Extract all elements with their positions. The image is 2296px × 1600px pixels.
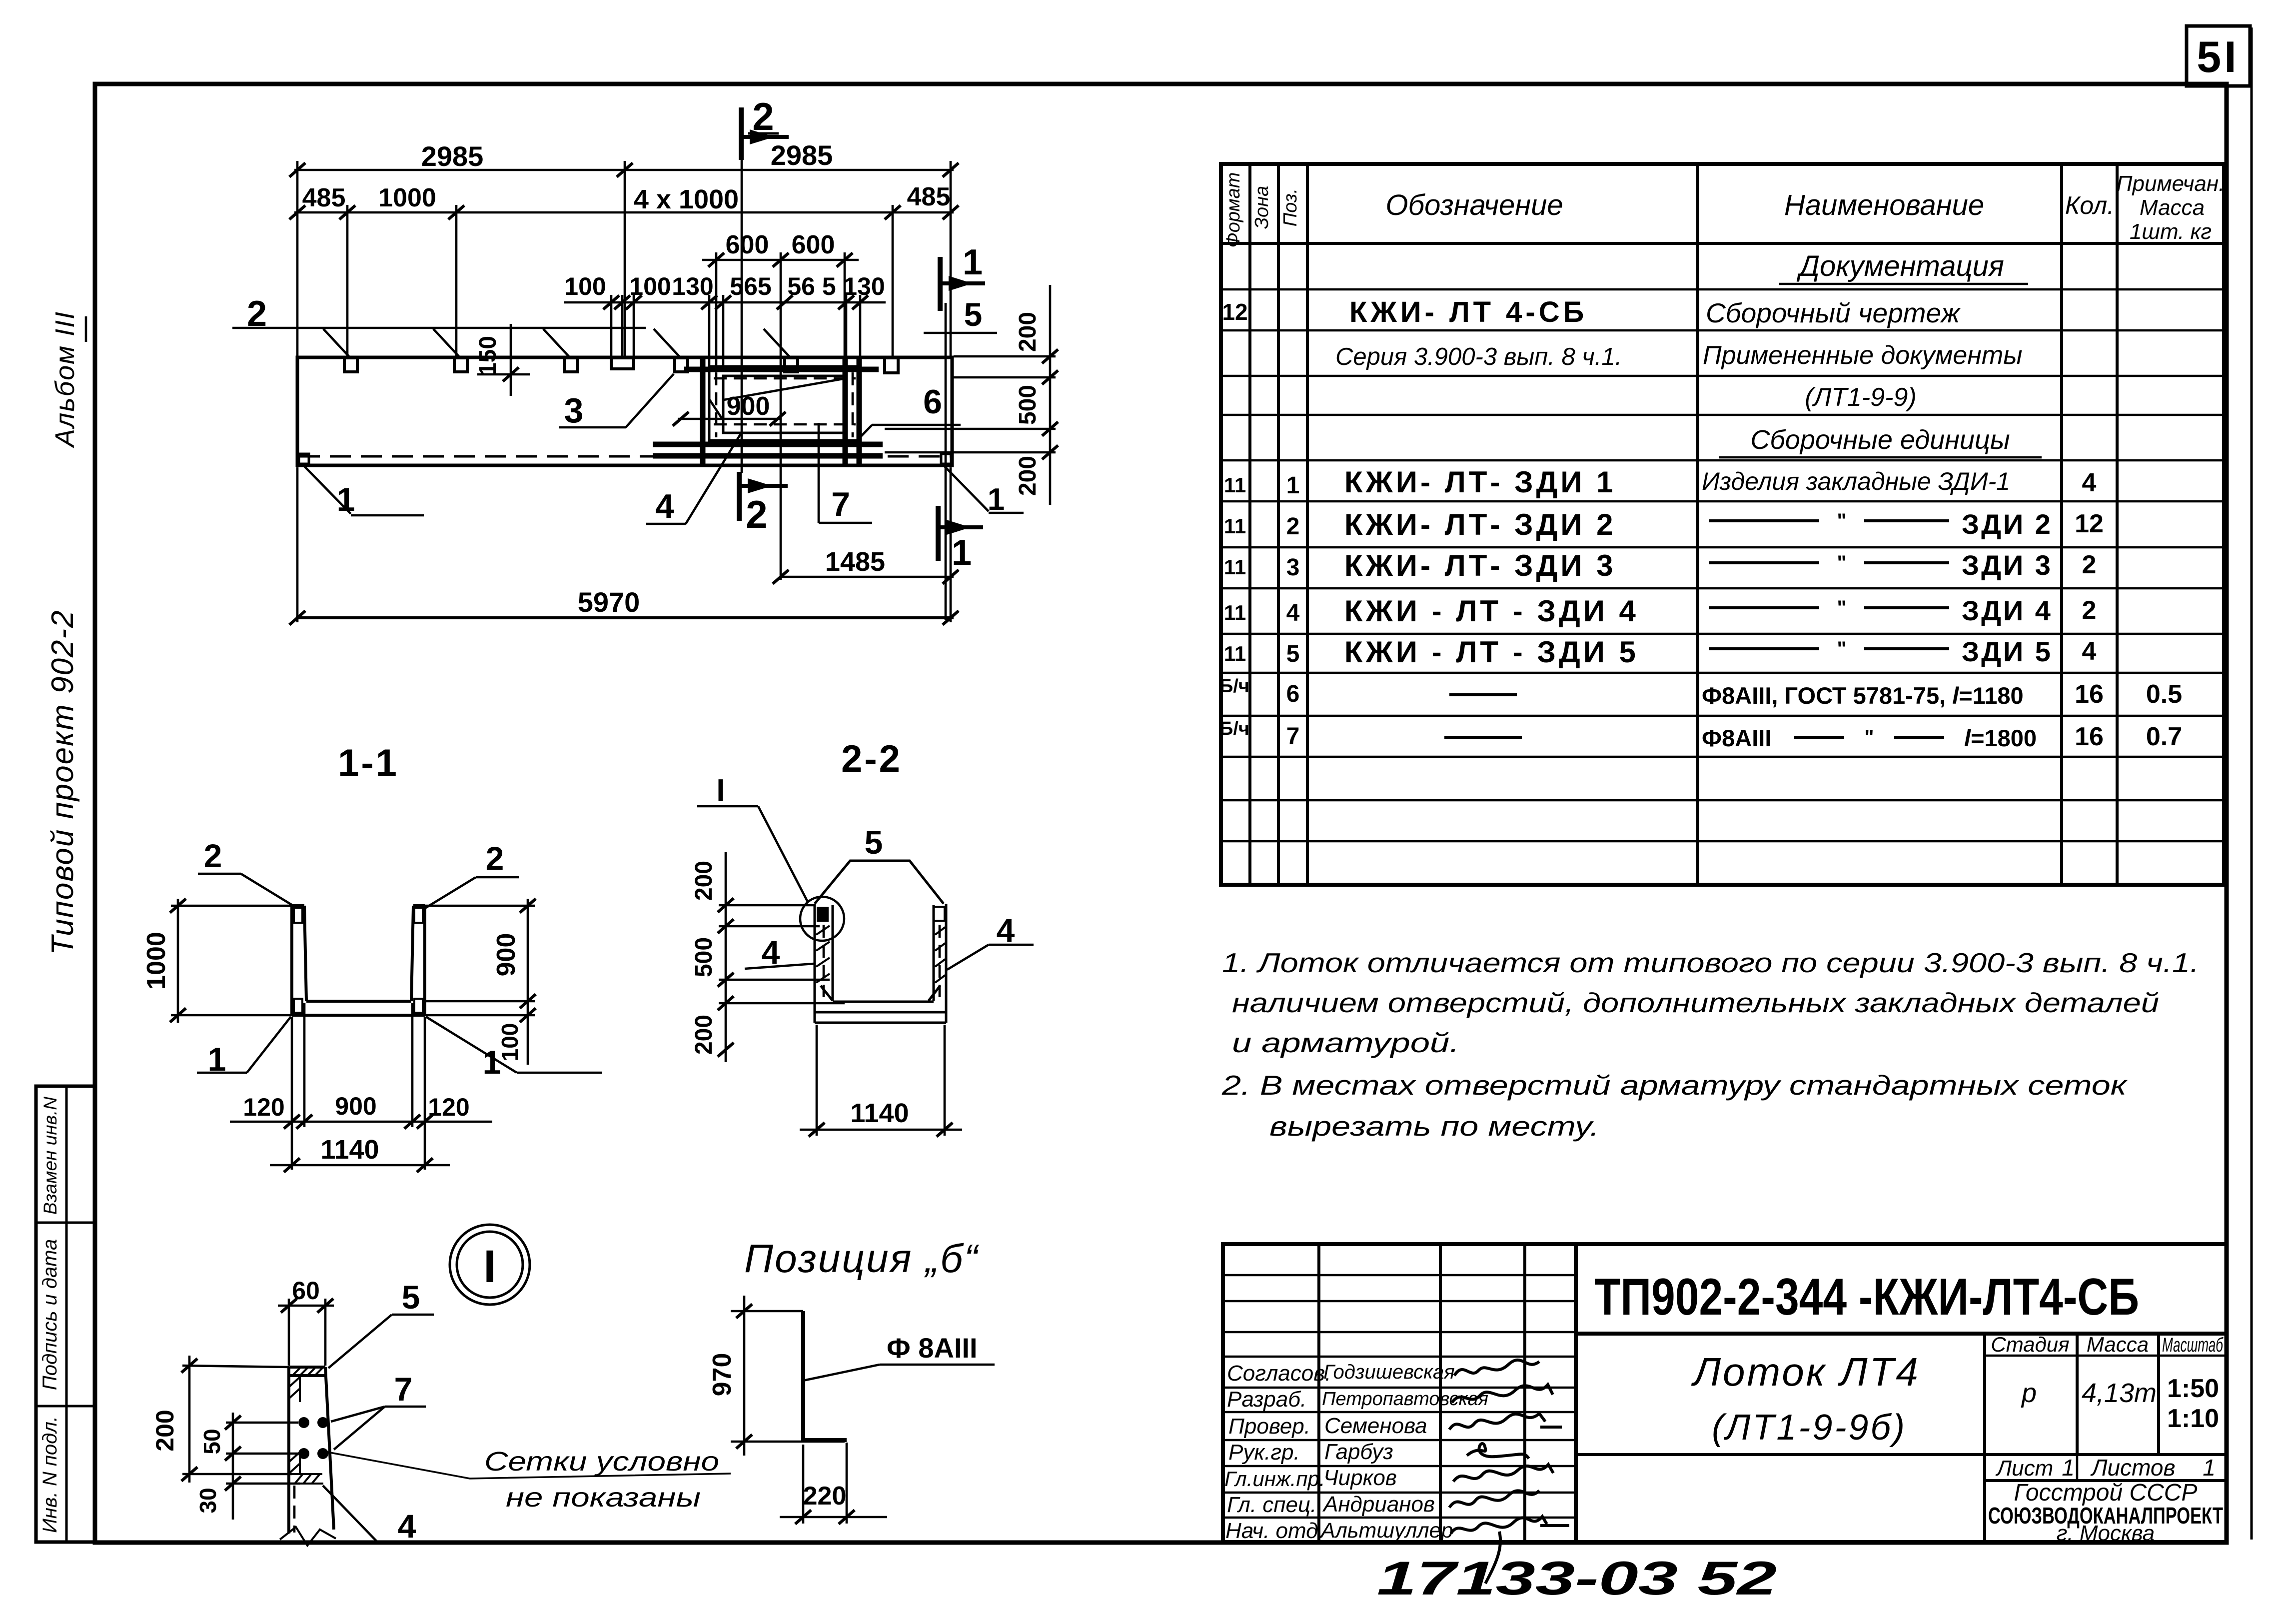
svg-text:1: 1 xyxy=(337,481,355,518)
svg-text:Сборочный чертеж: Сборочный чертеж xyxy=(1706,297,1961,328)
svg-text:": " xyxy=(1837,597,1847,619)
svg-text:2: 2 xyxy=(746,492,767,536)
svg-text:2: 2 xyxy=(752,94,774,138)
svg-text:0.5: 0.5 xyxy=(2146,680,2182,709)
svg-text:Масштаб: Масштаб xyxy=(2162,1334,2224,1356)
svg-text:не показаны: не показаны xyxy=(506,1483,701,1513)
svg-text:Ф 8АIII: Ф 8АIII xyxy=(887,1332,978,1364)
svg-text:Сетки условно: Сетки условно xyxy=(484,1447,719,1477)
svg-text:0.7: 0.7 xyxy=(2146,722,2182,751)
svg-text:": " xyxy=(1837,638,1847,660)
svg-text:КЖИ - ЛТ - ЗДИ 5: КЖИ - ЛТ - ЗДИ 5 xyxy=(1344,635,1639,669)
svg-text:Альтшуллер: Альтшуллер xyxy=(1319,1519,1453,1543)
svg-text:200: 200 xyxy=(1015,312,1041,352)
svg-text:Гарбуз: Гарбуз xyxy=(1324,1440,1393,1464)
svg-text:наличием отверстий, дополнит: наличием отверстий, дополнительных закла… xyxy=(1232,987,2159,1018)
svg-text:Типовой проект 902-2: Типовой проект 902-2 xyxy=(45,609,80,955)
svg-text:970: 970 xyxy=(708,1353,737,1397)
svg-text:1-1: 1-1 xyxy=(338,742,399,784)
svg-text:100: 100 xyxy=(629,272,671,300)
svg-text:4: 4 xyxy=(762,934,780,971)
svg-text:Гл. спец.: Гл. спец. xyxy=(1227,1493,1316,1517)
svg-text:4: 4 xyxy=(2082,637,2097,666)
svg-text:1: 1 xyxy=(963,242,983,282)
svg-text:3: 3 xyxy=(1286,554,1300,581)
svg-text:Разраб.: Разраб. xyxy=(1227,1387,1306,1412)
svg-text:КЖИ- ЛТ- ЗДИ 2: КЖИ- ЛТ- ЗДИ 2 xyxy=(1344,508,1616,541)
svg-text:Лоток ЛТ4: Лоток ЛТ4 xyxy=(1691,1350,1920,1394)
svg-text:Годзишевская: Годзишевская xyxy=(1323,1361,1455,1383)
svg-text:3: 3 xyxy=(564,391,584,430)
svg-text:2: 2 xyxy=(2082,596,2097,625)
svg-text:11: 11 xyxy=(1224,555,1246,579)
svg-text:6: 6 xyxy=(1286,681,1300,707)
svg-text:Масса: Масса xyxy=(2140,195,2205,220)
svg-text:и арматурой.: и арматурой. xyxy=(1232,1027,1459,1058)
svg-text:(ЛТ1-9-9): (ЛТ1-9-9) xyxy=(1805,383,1916,412)
svg-text:17133-03 52: 17133-03 52 xyxy=(1377,1552,1777,1600)
svg-text:200: 200 xyxy=(1015,456,1041,496)
svg-text:Гл.инж.пр.: Гл.инж.пр. xyxy=(1224,1467,1325,1491)
svg-text:1000: 1000 xyxy=(142,932,171,990)
svg-text:ЗДИ 2: ЗДИ 2 xyxy=(1962,508,2053,540)
svg-text:2-2: 2-2 xyxy=(841,738,902,780)
svg-text:120: 120 xyxy=(243,1093,284,1121)
svg-text:Нач. отд.: Нач. отд. xyxy=(1225,1519,1324,1543)
svg-text:485: 485 xyxy=(907,182,951,211)
svg-text:100: 100 xyxy=(564,272,606,300)
svg-text:12: 12 xyxy=(2075,509,2104,538)
svg-text:2: 2 xyxy=(2082,550,2097,579)
svg-text:60: 60 xyxy=(292,1277,320,1305)
svg-text:200: 200 xyxy=(691,861,717,901)
svg-text:р: р xyxy=(2021,1378,2037,1408)
svg-text:Согласов.: Согласов. xyxy=(1227,1361,1331,1386)
svg-text:Масса: Масса xyxy=(2087,1333,2149,1356)
svg-text:Кол.: Кол. xyxy=(2065,191,2114,219)
svg-text:1: 1 xyxy=(952,533,972,573)
svg-text:500: 500 xyxy=(691,937,717,977)
svg-text:5: 5 xyxy=(865,824,883,861)
svg-text:Ф8АIII: Ф8АIII xyxy=(1702,725,1771,751)
svg-text:900: 900 xyxy=(727,392,770,421)
svg-text:7: 7 xyxy=(1286,723,1300,750)
svg-text:Провер.: Провер. xyxy=(1228,1414,1310,1439)
svg-text:Примечан.: Примечан. xyxy=(2117,171,2225,196)
svg-text:Подпись и дата: Подпись и дата xyxy=(39,1239,61,1391)
svg-text:130: 130 xyxy=(843,272,885,300)
svg-text:КЖИ- ЛТ- ЗДИ 1: КЖИ- ЛТ- ЗДИ 1 xyxy=(1344,465,1616,499)
svg-text:565: 565 xyxy=(730,272,771,300)
svg-text:6: 6 xyxy=(923,383,942,421)
svg-text:11: 11 xyxy=(1224,601,1246,624)
svg-text:Серия 3.900-3 вып. 8 ч.1.: Серия 3.900-3 вып. 8 ч.1. xyxy=(1335,343,1622,370)
svg-text:1: 1 xyxy=(2062,1455,2075,1481)
svg-text:вырезать по месту.: вырезать по месту. xyxy=(1269,1111,1599,1142)
svg-text:Андрианов: Андрианов xyxy=(1322,1492,1435,1517)
svg-text:Примененные документы: Примененные документы xyxy=(1703,341,2022,370)
svg-text:Документация: Документация xyxy=(1796,250,2004,282)
svg-text:1140: 1140 xyxy=(320,1135,379,1165)
svg-text:Лист: Лист xyxy=(1995,1456,2053,1481)
svg-text:Б/ч: Б/ч xyxy=(1219,718,1249,739)
svg-text:130: 130 xyxy=(672,272,713,300)
svg-text:ЗДИ 5: ЗДИ 5 xyxy=(1962,636,2053,667)
svg-text:5: 5 xyxy=(964,296,983,333)
svg-text:30: 30 xyxy=(195,1488,221,1513)
svg-text:Сборочные единицы: Сборочные единицы xyxy=(1750,425,2010,455)
svg-text:220: 220 xyxy=(803,1482,847,1511)
svg-text:Наименование: Наименование xyxy=(1784,189,1984,221)
svg-text:200: 200 xyxy=(691,1015,717,1055)
svg-text:Формат: Формат xyxy=(1223,172,1244,248)
svg-text:7: 7 xyxy=(831,485,850,523)
svg-text:1000: 1000 xyxy=(378,183,436,212)
svg-text:4: 4 xyxy=(398,1508,416,1545)
svg-text:": " xyxy=(1865,726,1874,748)
svg-text:Б/ч: Б/ч xyxy=(1219,676,1249,697)
svg-text:4: 4 xyxy=(1286,600,1300,626)
svg-text:2: 2 xyxy=(204,837,222,874)
svg-text:Альбом III: Альбом III xyxy=(50,311,80,448)
svg-text:4: 4 xyxy=(997,912,1015,949)
svg-text:5: 5 xyxy=(402,1279,420,1316)
svg-text:11: 11 xyxy=(1224,473,1246,497)
svg-text:2985: 2985 xyxy=(771,139,833,171)
svg-text:4,13т: 4,13т xyxy=(2082,1378,2157,1408)
svg-text:(ЛТ1-9-9б): (ЛТ1-9-9б) xyxy=(1712,1408,1907,1448)
svg-text:2: 2 xyxy=(247,294,267,334)
svg-text:4: 4 xyxy=(2082,468,2097,497)
svg-text:l=1800: l=1800 xyxy=(1964,725,2037,751)
svg-text:I: I xyxy=(483,1241,496,1292)
svg-text:7: 7 xyxy=(394,1371,413,1408)
svg-text:1: 1 xyxy=(2203,1455,2216,1481)
svg-text:ТП902-2-344 -КЖИ-ЛТ4-СБ: ТП902-2-344 -КЖИ-ЛТ4-СБ xyxy=(1594,1268,2139,1326)
svg-text:": " xyxy=(1837,510,1847,532)
svg-text:11: 11 xyxy=(1224,514,1246,538)
svg-text:50: 50 xyxy=(199,1429,225,1454)
svg-text:500: 500 xyxy=(1015,385,1041,425)
svg-text:ЗДИ 4: ЗДИ 4 xyxy=(1962,595,2053,626)
svg-text:11: 11 xyxy=(1224,642,1246,665)
svg-text:16: 16 xyxy=(2075,722,2104,751)
svg-text:900: 900 xyxy=(335,1092,376,1120)
svg-text:": " xyxy=(1837,552,1847,574)
svg-text:г. Москва: г. Москва xyxy=(2057,1521,2155,1546)
svg-text:2. В местах отверстий арм: 2. В местах отверстий арматуру стандартн… xyxy=(1221,1070,2128,1101)
svg-text:Изделия закладные ЗДИ-1: Изделия закладные ЗДИ-1 xyxy=(1702,467,2010,495)
svg-text:200: 200 xyxy=(151,1410,179,1451)
svg-text:1: 1 xyxy=(1286,472,1300,499)
svg-text:485: 485 xyxy=(302,183,346,212)
svg-text:Семенова: Семенова xyxy=(1324,1414,1427,1438)
svg-text:Листов: Листов xyxy=(2090,1455,2176,1481)
svg-text:Зона: Зона xyxy=(1251,186,1272,229)
svg-text:Инв. N подл.: Инв. N подл. xyxy=(39,1416,61,1533)
svg-text:4 x 1000: 4 x 1000 xyxy=(634,184,739,214)
svg-text:КЖИ- ЛТ- ЗДИ 3: КЖИ- ЛТ- ЗДИ 3 xyxy=(1344,549,1616,582)
svg-text:56 5: 56 5 xyxy=(787,272,836,300)
svg-text:1140: 1140 xyxy=(850,1098,909,1128)
svg-text:Стадия: Стадия xyxy=(1991,1333,2069,1356)
svg-text:16: 16 xyxy=(2075,680,2104,709)
svg-text:600: 600 xyxy=(726,230,769,259)
svg-text:Петропавтовская: Петропавтовская xyxy=(1322,1389,1488,1410)
svg-text:Обозначение: Обозначение xyxy=(1385,189,1563,221)
svg-text:ЗДИ 3: ЗДИ 3 xyxy=(1962,549,2053,581)
svg-text:1: 1 xyxy=(988,482,1005,517)
svg-text:600: 600 xyxy=(792,230,835,259)
svg-text:2: 2 xyxy=(1286,513,1300,540)
svg-text:2985: 2985 xyxy=(421,140,484,172)
svg-text:Чирков: Чирков xyxy=(1323,1466,1397,1490)
svg-text:5I: 5I xyxy=(2197,32,2239,81)
svg-text:1:10: 1:10 xyxy=(2167,1404,2219,1433)
svg-text:120: 120 xyxy=(428,1093,469,1121)
svg-text:Ф8АIII, ГОСТ 5781-75, l=1180: Ф8АIII, ГОСТ 5781-75, l=1180 xyxy=(1702,682,2024,709)
svg-text:4: 4 xyxy=(655,487,674,525)
svg-text:Рук.гр.: Рук.гр. xyxy=(1228,1440,1300,1465)
svg-text:12: 12 xyxy=(1222,299,1247,325)
svg-text:Поз.: Поз. xyxy=(1280,188,1301,226)
svg-text:2: 2 xyxy=(486,840,504,877)
svg-text:КЖИ- ЛТ 4-СБ: КЖИ- ЛТ 4-СБ xyxy=(1349,296,1587,328)
svg-text:900: 900 xyxy=(492,933,521,977)
svg-text:5: 5 xyxy=(1286,641,1300,667)
svg-text:КЖИ - ЛТ - ЗДИ 4: КЖИ - ЛТ - ЗДИ 4 xyxy=(1344,594,1639,628)
svg-text:I: I xyxy=(716,773,725,808)
svg-text:5970: 5970 xyxy=(578,586,640,618)
svg-text:Взамен инв.N: Взамен инв.N xyxy=(40,1097,60,1215)
svg-text:1шт. кг: 1шт. кг xyxy=(2130,219,2212,244)
svg-text:1:50: 1:50 xyxy=(2167,1374,2219,1403)
svg-text:Позиция „б“: Позиция „б“ xyxy=(744,1236,980,1281)
svg-text:1485: 1485 xyxy=(825,547,885,577)
svg-text:150: 150 xyxy=(475,336,501,376)
svg-text:1. Лоток отличается от тип: 1. Лоток отличается от типового по серии… xyxy=(1222,947,2199,978)
